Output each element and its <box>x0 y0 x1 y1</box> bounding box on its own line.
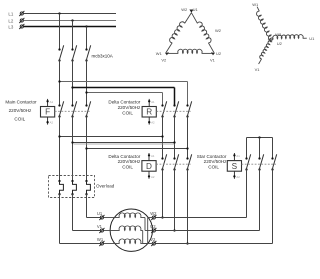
svg-text:W1: W1 <box>97 237 104 242</box>
svg-text:COIL: COIL <box>14 116 25 121</box>
svg-text:F: F <box>45 108 50 117</box>
svg-text:A1: A1 <box>151 100 155 104</box>
svg-text:220V/50Hz: 220V/50Hz <box>9 108 32 113</box>
svg-text:V1: V1 <box>255 67 261 72</box>
svg-text:V2: V2 <box>150 237 156 242</box>
svg-text:A1: A1 <box>236 154 240 158</box>
svg-text:W1: W1 <box>252 2 259 7</box>
svg-text:U2: U2 <box>216 51 222 56</box>
svg-text:mcb3x10A: mcb3x10A <box>92 54 113 59</box>
svg-text:A2: A2 <box>236 175 240 179</box>
svg-text:220V/50Hz: 220V/50Hz <box>204 159 227 164</box>
svg-text:Star Contactor: Star Contactor <box>197 154 227 159</box>
svg-text:U1: U1 <box>309 36 315 41</box>
svg-text:Overload: Overload <box>96 183 115 188</box>
svg-text:V2: V2 <box>268 38 274 43</box>
svg-text:A2: A2 <box>151 121 155 125</box>
svg-text:W2: W2 <box>275 32 282 37</box>
svg-text:A2: A2 <box>151 175 155 179</box>
svg-text:220V/50Hz: 220V/50Hz <box>118 105 141 110</box>
svg-text:D: D <box>146 162 152 171</box>
svg-text:U2: U2 <box>277 41 283 46</box>
svg-text:U1: U1 <box>193 7 199 12</box>
svg-text:Delta Contactor: Delta Contactor <box>108 100 140 105</box>
svg-text:U2: U2 <box>150 224 156 229</box>
svg-text:A2: A2 <box>50 121 54 125</box>
svg-text:Delta Contactor: Delta Contactor <box>108 154 140 159</box>
svg-text:L2: L2 <box>8 19 13 24</box>
svg-text:W2: W2 <box>150 211 157 216</box>
svg-text:A1: A1 <box>151 154 155 158</box>
svg-text:V1: V1 <box>97 224 103 229</box>
svg-text:R: R <box>146 108 152 117</box>
svg-text:Main Contactor: Main Contactor <box>5 100 37 105</box>
svg-text:V1: V1 <box>210 58 216 63</box>
svg-text:W1: W1 <box>156 51 163 56</box>
svg-text:U1: U1 <box>97 211 103 216</box>
svg-text:COIL: COIL <box>208 165 219 170</box>
svg-text:W2: W2 <box>181 7 188 12</box>
svg-text:220V/50Hz: 220V/50Hz <box>118 159 141 164</box>
svg-text:COIL: COIL <box>122 110 133 115</box>
svg-text:V2: V2 <box>161 58 167 63</box>
svg-text:L1: L1 <box>8 12 13 17</box>
svg-text:S: S <box>232 162 238 171</box>
svg-text:COIL: COIL <box>122 165 133 170</box>
svg-text:L3: L3 <box>8 25 13 30</box>
svg-text:W2: W2 <box>215 28 222 33</box>
svg-text:A1: A1 <box>50 100 54 104</box>
